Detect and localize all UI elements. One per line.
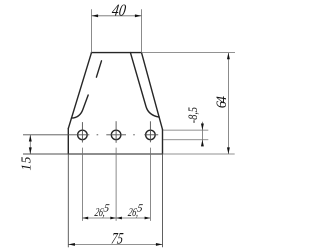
arrow 26.5 right end — [145, 217, 151, 220]
centerline vertical hole right — [149, 121, 151, 142]
hole ext line right below part — [149, 148, 151, 221]
dim 40 line — [92, 15, 142, 17]
right inner flange line with fillet — [130, 53, 159, 118]
thin lines: dimension/extension — [30, 9, 235, 244]
arrow 64 top — [227, 53, 230, 60]
dim 40 extension left — [91, 9, 93, 52]
hole center — [111, 130, 121, 140]
dim 8.5 tangent upper — [163, 129, 208, 131]
thin lines: centerlines and side extensions — [23, 121, 163, 247]
dim 75 line — [68, 243, 162, 245]
arrow 26.5 left end — [82, 217, 88, 220]
arrow 15 bottom — [29, 147, 32, 154]
centerline horizontal through holes — [23, 134, 89, 136]
top edge — [92, 52, 142, 54]
right slant edge — [142, 53, 163, 130]
arrow 26.5 middle left — [110, 217, 116, 220]
centerline vertical hole left — [81, 122, 83, 142]
dim 26.5 line — [82, 217, 150, 219]
arrow 64 bottom — [227, 147, 230, 154]
arrow 8.5 top outside — [201, 124, 204, 131]
hole ext line center below part — [115, 148, 117, 221]
dim 40 extension right — [141, 9, 143, 52]
centerline vertical hole center — [115, 121, 117, 143]
dim 64 extension bottom — [163, 153, 235, 155]
dim 15 extension lower — [23, 153, 68, 155]
svg-text:64: 64 — [214, 96, 230, 108]
left inner flange segment upper — [96, 61, 101, 77]
left vertical edge — [67, 129, 69, 155]
right vertical edge — [162, 130, 164, 155]
arrow 40 left — [92, 14, 99, 17]
hole ext line left below part — [81, 148, 83, 221]
svg-text:75: 75 — [110, 230, 124, 247]
dim 8.5 line — [201, 122, 203, 147]
dim 75 extension right — [162, 154, 164, 247]
bottom edge of part — [68, 153, 162, 155]
left inner flange segment lower with fillet — [72, 95, 89, 118]
arrowheads — [29, 14, 230, 246]
part outline — [68, 53, 162, 154]
arrow 8.5 bottom outside — [201, 140, 204, 147]
arrow 75 left — [68, 243, 75, 246]
dim 64 line — [227, 53, 229, 154]
arrow 15 top — [29, 135, 32, 142]
hole right — [146, 130, 156, 140]
dim 15 line — [29, 135, 31, 154]
left slant edge — [68, 53, 91, 129]
dim 64 extension top — [142, 52, 236, 54]
arrow 75 right — [156, 243, 163, 246]
arrow 40 right — [135, 14, 142, 17]
svg-text:15: 15 — [18, 156, 33, 171]
dim 8.5 tangent lower — [163, 139, 208, 141]
arrow 26.5 middle right — [116, 217, 122, 220]
hole left — [78, 130, 88, 140]
svg-text:-8,5: -8,5 — [185, 107, 200, 124]
dim 75 extension left — [67, 154, 69, 247]
